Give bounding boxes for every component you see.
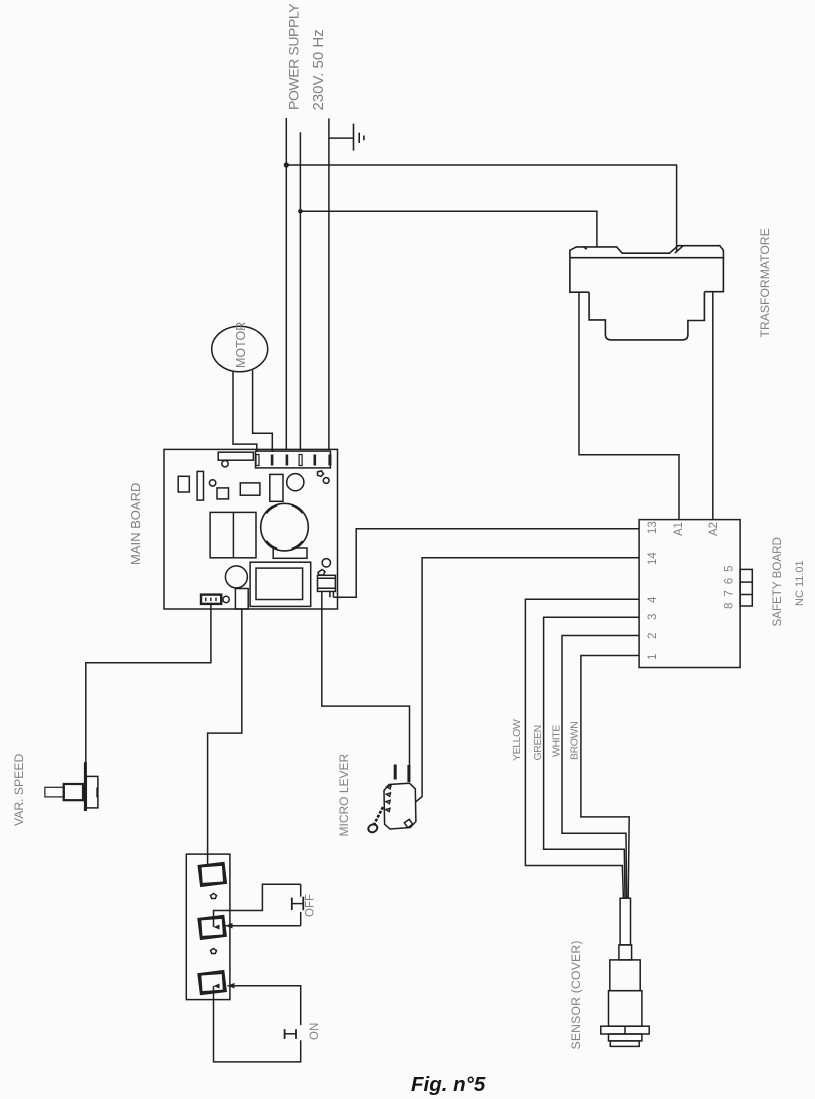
node arrow middle square [214, 925, 220, 930]
node arrow bottom square [214, 984, 220, 989]
pin 4 of CN1 [299, 455, 302, 466]
hole below strip [222, 461, 228, 467]
capacitor C1 top view [261, 503, 309, 551]
rivet dot 1 [211, 894, 217, 899]
svg-text:3: 3 [647, 614, 659, 620]
wire board to safety pin 13 [330, 591, 334, 597]
component right edge K1 [318, 575, 336, 591]
small square component [217, 488, 229, 499]
svg-text:13: 13 [647, 521, 659, 534]
pin 2 of CN1 [271, 455, 274, 466]
svg-text:OFF: OFF [305, 894, 317, 917]
micro switch lever [374, 807, 384, 826]
safety board U2 [639, 520, 740, 668]
connector strip top-left of board [218, 452, 253, 460]
wire board to micro lever [322, 591, 410, 780]
switch ON contact [285, 1029, 296, 1039]
transformer box on pcb outer [250, 562, 311, 606]
svg-text:VAR. SPEED: VAR. SPEED [12, 754, 26, 826]
svg-text:A1: A1 [673, 522, 685, 536]
svg-text:14: 14 [647, 552, 659, 565]
round component [287, 474, 304, 491]
svg-text:YELLOW: YELLOW [511, 719, 523, 761]
wire safety pin 3 green [544, 617, 640, 898]
pin 5 of CN1 [314, 455, 317, 466]
vertical rect component [270, 474, 283, 501]
arrow off return [226, 923, 233, 929]
svg-text:230V. 50 Hz: 230V. 50 Hz [310, 29, 327, 110]
hole top right [323, 478, 329, 484]
svg-text:A2: A2 [708, 522, 720, 536]
connector right of safety board [740, 569, 752, 606]
small rect component [240, 483, 260, 495]
capacitor chamfer marks [266, 505, 303, 549]
wire board to var speed pot [86, 604, 211, 762]
transformer box on pcb inner [256, 568, 303, 599]
wire safety pin 2 white [562, 636, 639, 899]
svg-text:GREEN: GREEN [532, 725, 544, 760]
svg-text:8 7 6 5: 8 7 6 5 [724, 564, 736, 609]
svg-text:POWER SUPPLY: POWER SUPPLY [286, 3, 302, 110]
pin 1 of CN1 [256, 455, 259, 466]
3 pin connector J3 [201, 595, 221, 604]
svg-text:2: 2 [647, 633, 659, 639]
svg-text:MOTOR: MOTOR [234, 322, 248, 368]
round component lower left [225, 566, 247, 588]
node junction J2 [298, 209, 303, 214]
motor M [212, 326, 268, 372]
pin 3 of CN1 [286, 455, 289, 466]
svg-text:MAIN BOARD: MAIN BOARD [128, 483, 143, 565]
switch OFF contact [292, 884, 304, 925]
transformer T1 [570, 246, 724, 340]
pad under capacitor [273, 548, 307, 558]
hole near connector [223, 596, 229, 602]
wire power line 3 [328, 118, 330, 452]
arrow on loop [228, 983, 235, 989]
ground [354, 124, 364, 151]
potentiometer VAR SPEED [45, 762, 99, 811]
svg-text:SENSOR (COVER): SENSOR (COVER) [569, 940, 583, 1049]
wire power line 1 [285, 118, 287, 453]
rocker contact square 2 [198, 916, 225, 939]
wire safety pin 14 to micro lever [416, 558, 639, 802]
main board PCB outline [164, 449, 338, 609]
svg-text:SAFETY BOARD: SAFETY BOARD [771, 537, 784, 626]
wire ground stub [329, 137, 354, 139]
pin 6 of CN1 [328, 455, 331, 466]
switch block [186, 854, 230, 1000]
svg-text:NC 11.01: NC 11.01 [794, 560, 806, 606]
svg-text:TRASFORMATORE: TRASFORMATORE [758, 228, 772, 337]
rivet dot 2 [211, 949, 217, 954]
wire phase to transformer right [286, 165, 676, 252]
wire off return [226, 925, 301, 927]
wire motor lead right [253, 370, 273, 452]
wire off loop [214, 884, 301, 927]
micro switch pin marks [386, 786, 391, 812]
svg-text:4: 4 [647, 596, 659, 603]
hole [209, 480, 215, 486]
wire safety pin 1 brown [581, 656, 639, 899]
small pad right [318, 570, 325, 576]
micro switch terminal 2 [407, 765, 410, 782]
sensor connector plug [601, 898, 649, 1046]
micro switch body [384, 783, 416, 829]
micro switch bottom mark [404, 819, 412, 827]
wire board to switch block [208, 609, 242, 866]
svg-text:ON: ON [309, 1023, 321, 1040]
tall component [197, 471, 203, 500]
hole right [322, 559, 330, 567]
wire neutral to transformer left [300, 211, 597, 247]
rocker contact square 3 [198, 971, 225, 994]
resistor block left [178, 476, 189, 492]
svg-text:WHITE: WHITE [551, 725, 563, 757]
wire power line 2 [299, 132, 301, 452]
wire transformer right lead to A2 [712, 292, 714, 520]
wire safety pin 4 yellow [525, 599, 639, 898]
small pad [318, 471, 324, 477]
svg-text:1: 1 [647, 654, 659, 660]
wire on loop top [228, 986, 301, 1025]
main connector CN1 [256, 451, 331, 468]
svg-text:BROWN: BROWN [569, 722, 581, 760]
node junction J1 [284, 162, 289, 167]
relay block [210, 512, 256, 557]
micro switch lever ring [367, 823, 379, 834]
svg-text:MICRO LEVER: MICRO LEVER [337, 753, 351, 836]
wire transformer left lead to A1 [579, 292, 679, 519]
wire on loop bottom [214, 986, 301, 1062]
wire motor lead left [233, 371, 257, 452]
svg-text:Fig. n°5: Fig. n°5 [411, 1073, 486, 1096]
rocker contact square 1 [199, 863, 226, 886]
micro switch terminal 1 [394, 765, 397, 780]
component at bottom edge [235, 589, 248, 610]
relay divider [232, 512, 234, 557]
